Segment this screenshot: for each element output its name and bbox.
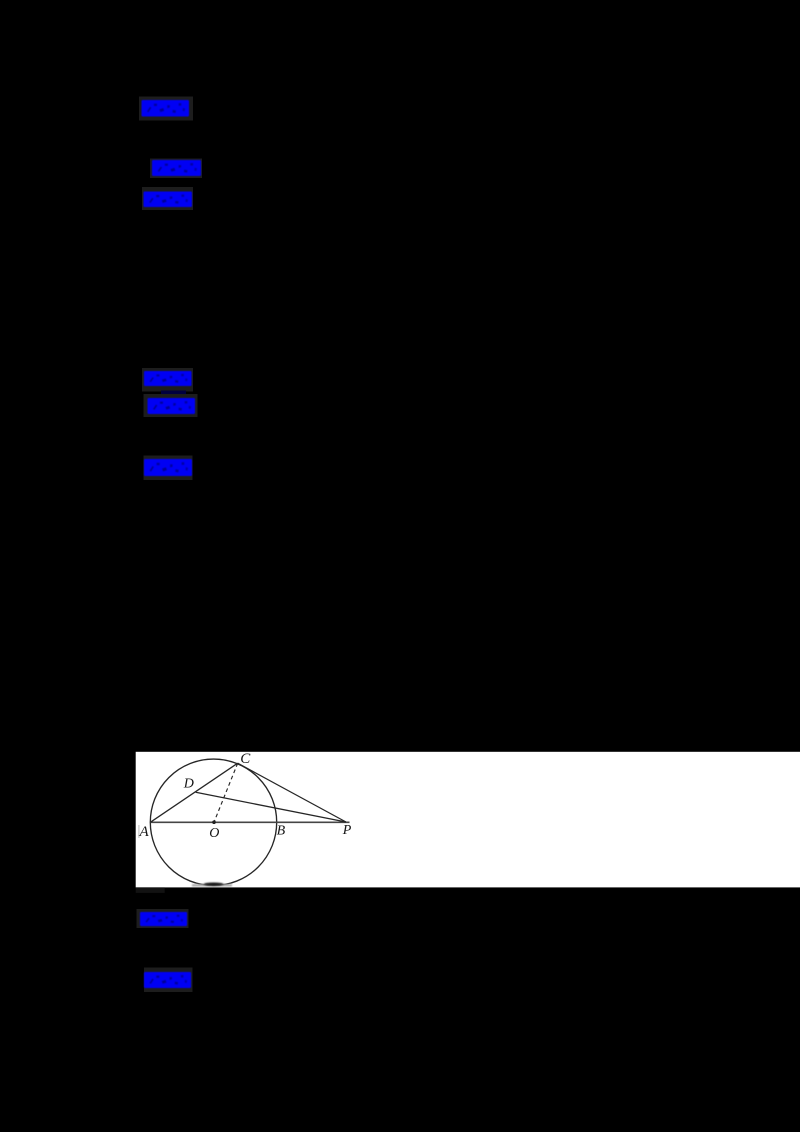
blue label 3 <box>144 192 192 208</box>
halo box label 6 <box>144 456 193 481</box>
halo box label 1 <box>139 97 193 121</box>
blue label 2 <box>152 160 201 176</box>
halo box label 5 <box>144 394 198 417</box>
blue label 1 <box>142 100 190 116</box>
halo box label 4 <box>142 368 193 392</box>
blue label 8 <box>144 972 191 988</box>
svg-text:B: B <box>277 823 286 838</box>
svg-text:D: D <box>183 777 194 792</box>
halo box label 2 <box>150 159 202 179</box>
halo box label 7 <box>137 909 189 928</box>
halo box label 3 <box>142 187 193 210</box>
blue label 6 <box>144 459 192 476</box>
left margin tick <box>138 825 139 838</box>
bottom-left corner artifact <box>136 887 165 893</box>
svg-text:O: O <box>209 826 219 841</box>
center dot O <box>212 820 216 824</box>
white figure band <box>136 752 800 888</box>
circle O <box>150 759 276 885</box>
bottom arc blob <box>192 883 232 887</box>
svg-text:P: P <box>342 823 352 838</box>
line D-P <box>196 792 346 822</box>
blue label 5 <box>148 398 196 414</box>
blue label 7 <box>140 912 187 926</box>
secant line A-P <box>150 821 349 823</box>
blue label 4 <box>144 371 192 386</box>
svg-text:A: A <box>139 824 150 840</box>
tangent line C-P <box>238 763 346 822</box>
chord A-C <box>150 763 237 822</box>
halo box label 8 <box>144 968 193 993</box>
svg-text:C: C <box>240 751 251 767</box>
dashed radius C-O <box>214 763 238 822</box>
faint smudge under label 4 <box>161 391 186 396</box>
